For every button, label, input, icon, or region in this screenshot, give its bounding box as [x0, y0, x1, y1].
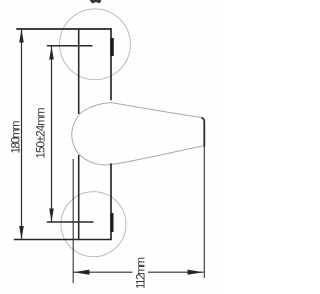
- label 112mm (rotated, on the line): [136, 257, 148, 289]
- svg-text:150±24mm: 150±24mm: [36, 108, 48, 159]
- label 180mm (rotated): [11, 121, 23, 154]
- dimension 150±24mm vertical line with arrows: [49, 46, 54, 222]
- bottom connection centre reference line: [47, 221, 94, 223]
- dimension 112mm horizontal line with arrows: [74, 270, 204, 275]
- handle right end edge (dark): [202, 117, 205, 146]
- top connection centre reference line: [47, 45, 93, 47]
- faucet body left edge (interrupted by handle): [78, 28, 80, 240]
- small knob cropped at top edge: [90, 0, 102, 3]
- svg-text:112mm: 112mm: [136, 257, 148, 289]
- faucet body top line: [16, 28, 112, 30]
- dimension 180mm vertical line with arrows: [19, 29, 24, 240]
- upper wall-union nut (dark bar on right edge): [110, 38, 114, 56]
- faucet body bottom line: [14, 239, 112, 241]
- label 150±24mm (rotated): [36, 108, 48, 159]
- top connection circle (light phantom line): [60, 9, 131, 80]
- svg-text:180mm: 180mm: [11, 121, 23, 154]
- bottom connection circle (light phantom line): [61, 192, 126, 257]
- lower wall-union nut (dark bar on right edge): [110, 213, 113, 232]
- lever handle outline (light line, pointing right): [72, 103, 205, 165]
- faucet body right edge (interrupted by handle): [110, 28, 112, 240]
- left extension line for 112mm: [72, 159, 74, 283]
- right extension line for 112mm (continues handle edge): [203, 147, 205, 279]
